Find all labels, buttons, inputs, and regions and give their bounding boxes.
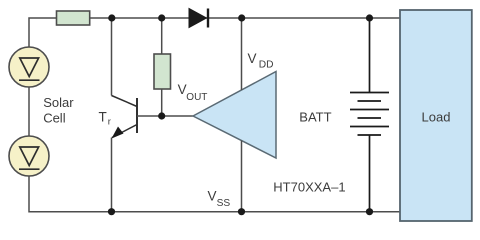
wire bottom-left and bottom rail: [29, 176, 400, 212]
svg-text:Load: Load: [422, 109, 451, 124]
battery BATT: [350, 18, 389, 212]
svg-text:Solar: Solar: [43, 95, 74, 110]
junction dot bottom 1: [108, 208, 115, 215]
svg-text:SS: SS: [217, 198, 231, 209]
svg-text:V: V: [208, 189, 217, 204]
junction dot top 2: [158, 14, 165, 21]
svg-text:r: r: [108, 116, 111, 127]
wire VSS pin: [241, 141, 243, 212]
wire top rail: [90, 17, 400, 19]
junction dot top 3: [238, 14, 245, 21]
op-amp U1 HT70XXA-1: [193, 72, 276, 159]
wire emitter vertical: [111, 138, 113, 212]
load box: [400, 10, 472, 221]
svg-text:DD: DD: [259, 60, 274, 71]
svg-text:T: T: [99, 110, 107, 125]
transistor Tr: [112, 96, 138, 139]
junction dot top 1: [108, 14, 115, 21]
svg-text:V: V: [178, 82, 187, 97]
svg-text:HT70XXA–1: HT70XXA–1: [273, 180, 345, 195]
resistor R1: [57, 11, 90, 25]
wire collector vertical: [111, 18, 113, 96]
junction dot top 4: [366, 14, 373, 21]
junction dot base node: [158, 112, 165, 119]
wire base to op-amp: [137, 115, 193, 117]
svg-text:V: V: [248, 51, 257, 66]
diode D1: [189, 9, 208, 28]
resistor R2: [154, 54, 171, 89]
wire VDD pin: [241, 18, 243, 90]
solar cell PD2: [9, 136, 49, 176]
wire between solar cells: [28, 87, 30, 136]
svg-text:BATT: BATT: [299, 109, 331, 124]
svg-text:OUT: OUT: [186, 92, 207, 103]
solar cell PD1: [9, 47, 49, 87]
svg-text:Cell: Cell: [43, 110, 66, 125]
wire top-left from solar cell to resistor: [29, 18, 57, 47]
junction dot bottom 2: [238, 208, 245, 215]
junction dot bottom 3: [366, 208, 373, 215]
wire resistor bottom: [161, 89, 163, 116]
wire resistor top: [161, 18, 163, 54]
